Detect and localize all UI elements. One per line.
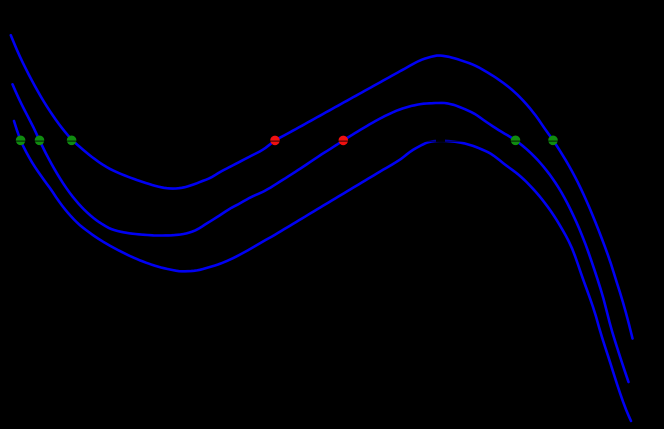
green dot P7 on C1 right bbox=[548, 136, 558, 146]
axis gap cut in C3 apex bbox=[436, 138, 445, 142]
invisible x-axis line (black) crossing dots and C3 apex bbox=[0, 140, 664, 142]
green dot P1 on C3 left bbox=[16, 136, 26, 146]
curve C3 (bottom solution curve) bbox=[14, 121, 631, 421]
curve C1 (top solution curve) bbox=[11, 35, 633, 338]
green dot P2 on C2 left bbox=[35, 136, 45, 146]
red dot P5 on C2 rising branch bbox=[339, 136, 349, 146]
red dot P4 on C1 rising branch bbox=[270, 136, 280, 146]
green dot P6 on C2 right bbox=[511, 136, 521, 146]
green dot P3 on C1 left bbox=[67, 136, 77, 146]
curve C2 (middle solution curve) bbox=[13, 84, 629, 382]
